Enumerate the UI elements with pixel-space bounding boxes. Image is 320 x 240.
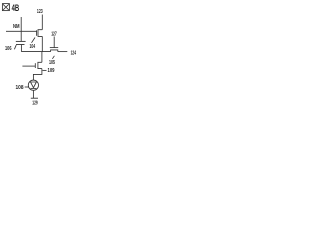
label pointer 105: [52, 56, 54, 59]
wire NM horizontal: [6, 30, 37, 32]
label pointer 108: [25, 86, 29, 88]
wire LED cathode lead: [32, 90, 34, 98]
transistor 104 channel: [38, 30, 42, 37]
wire 109 gate lead: [22, 65, 35, 67]
transistor 105 gate bar: [50, 47, 58, 49]
wire 127 gate lead: [53, 37, 55, 48]
svg-text:4B: 4B: [12, 3, 20, 13]
svg-text:123: 123: [37, 9, 43, 15]
svg-text:105: 105: [49, 60, 55, 66]
svg-text:129: 129: [32, 100, 37, 106]
wire node down to drive transistor: [41, 52, 43, 63]
transistor 109 gate bar: [34, 63, 36, 68]
svg-text:108: 108: [16, 85, 24, 91]
label pointer 109: [43, 69, 47, 71]
transistor 104 gate bar: [36, 30, 38, 36]
LED 108 cathode bar: [31, 87, 37, 89]
wire 123 lead: [41, 15, 43, 30]
LED 108 circle: [28, 80, 38, 90]
svg-text:109: 109: [48, 68, 55, 74]
svg-text:124: 124: [71, 50, 76, 56]
capacitor 106: [16, 41, 26, 44]
wire drive transistor to LED: [33, 69, 42, 81]
svg-text:106: 106: [5, 46, 12, 52]
svg-text:NM: NM: [13, 24, 20, 30]
transistor 105 channel: [51, 50, 58, 52]
wire capacitor bottom lead: [20, 45, 22, 52]
terminal bar 129: [31, 97, 38, 99]
LED 108 triangle: [31, 82, 37, 88]
svg-text:104: 104: [30, 44, 36, 50]
wire mid horizontal node: [21, 51, 50, 53]
label pointer 106: [14, 45, 16, 49]
figure title 図4B: [2, 4, 9, 11]
label pointer 104: [32, 38, 36, 43]
wire 104 source to node: [41, 36, 43, 51]
transistor 109 channel: [38, 62, 42, 68]
wire NM vertical stub: [20, 17, 22, 41]
wire 105 right lead: [58, 51, 68, 53]
